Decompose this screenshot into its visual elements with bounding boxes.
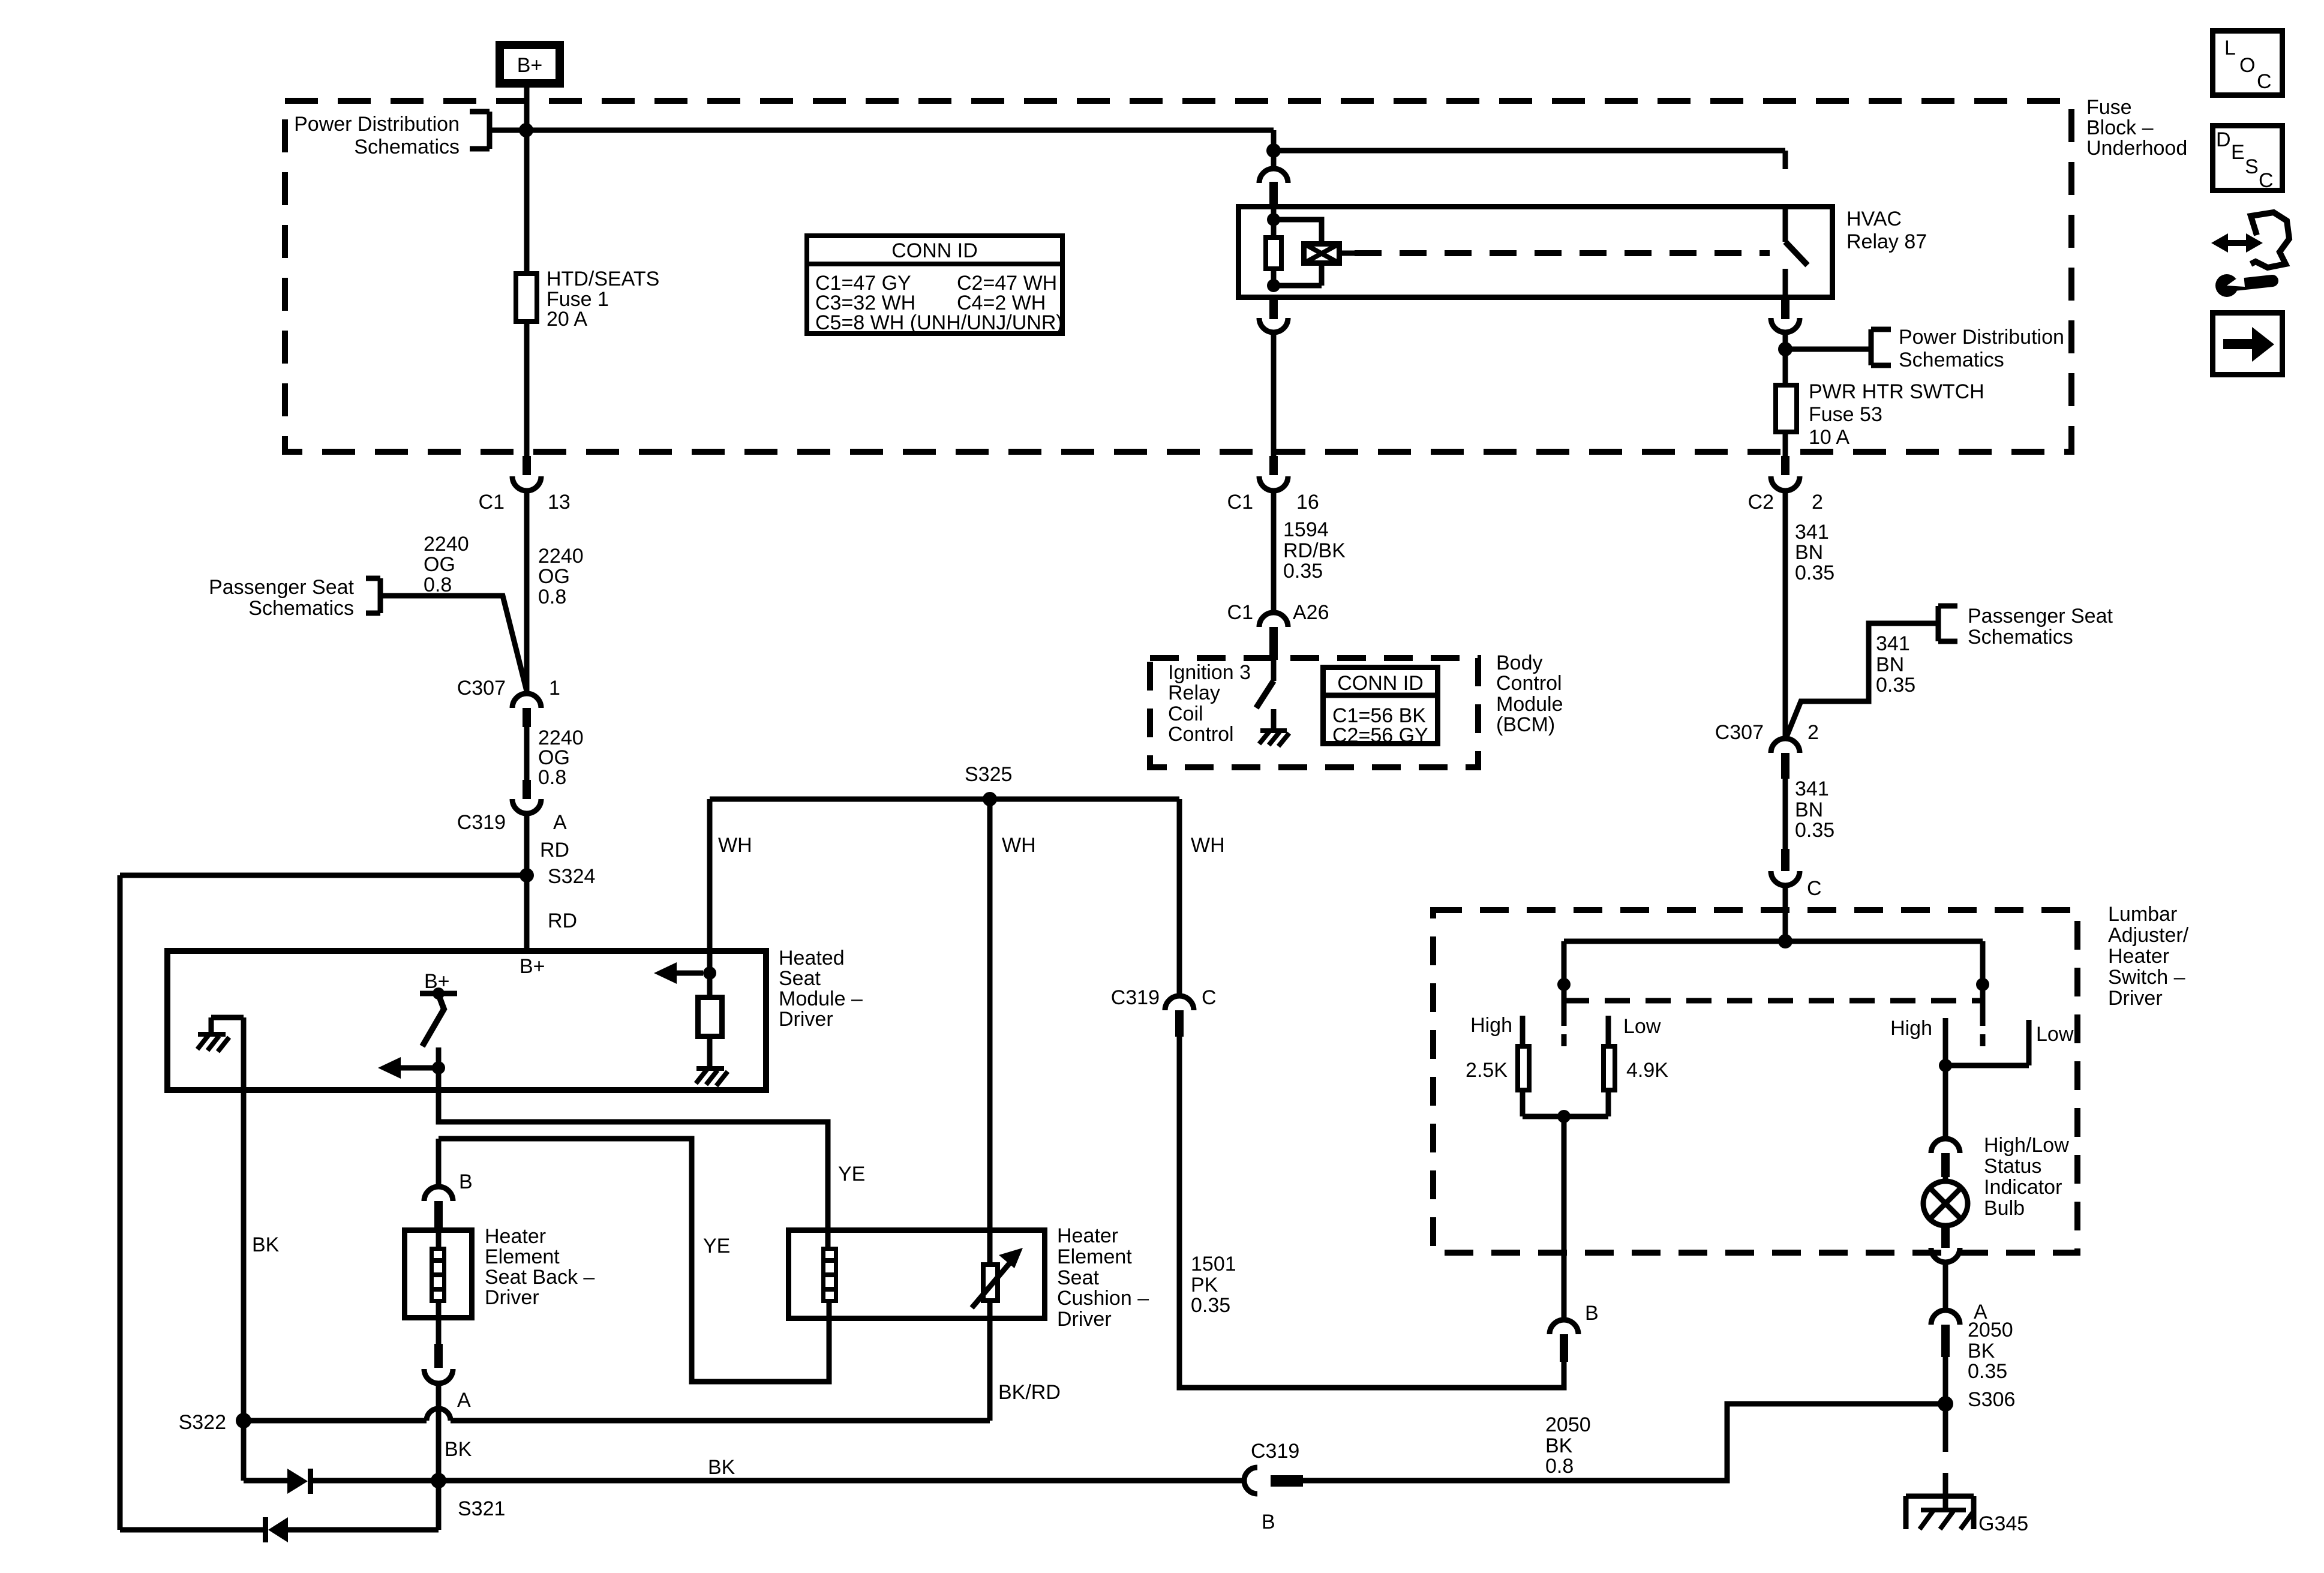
wire series link cushion to seat back bbox=[439, 1139, 829, 1382]
svg-text:BN: BN bbox=[1795, 798, 1823, 821]
svg-text:S325: S325 bbox=[965, 763, 1012, 786]
connector C319-A bbox=[523, 780, 531, 799]
svg-text:16: 16 bbox=[1296, 491, 1319, 514]
wire bulb to connector A bbox=[1943, 1262, 1948, 1310]
svg-text:Module –: Module – bbox=[779, 987, 863, 1010]
resistor 4.9K bbox=[1604, 1046, 1615, 1090]
svg-text:B: B bbox=[1585, 1302, 1599, 1325]
svg-text:Schematics: Schematics bbox=[248, 597, 354, 620]
wire into lumbar switch bbox=[1783, 885, 1788, 941]
svg-text:Relay 87: Relay 87 bbox=[1846, 230, 1927, 253]
svg-text:BK: BK bbox=[445, 1438, 472, 1461]
wire WH right branch bbox=[1177, 799, 1182, 996]
svg-text:Ignition 3: Ignition 3 bbox=[1168, 661, 1251, 684]
svg-text:Control: Control bbox=[1168, 723, 1234, 746]
node relay feed junction bbox=[1266, 143, 1281, 158]
svg-text:Indicator: Indicator bbox=[1984, 1176, 2062, 1199]
wire S322 to BK/RD with hop bbox=[244, 1409, 990, 1421]
svg-text:Seat Back –: Seat Back – bbox=[485, 1266, 594, 1289]
svg-text:Bulb: Bulb bbox=[1984, 1197, 2025, 1220]
svg-text:Switch –: Switch – bbox=[2108, 966, 2185, 989]
svg-text:C319: C319 bbox=[1251, 1440, 1299, 1463]
svg-text:Passenger Seat: Passenger Seat bbox=[1968, 605, 2113, 628]
bulb connector top bbox=[1931, 1139, 1960, 1153]
svg-text:YE: YE bbox=[838, 1163, 865, 1185]
svg-text:Adjuster/: Adjuster/ bbox=[2108, 924, 2189, 947]
svg-text:WH: WH bbox=[1002, 834, 1036, 857]
svg-text:0.35: 0.35 bbox=[1795, 819, 1834, 842]
internal resistor branch wire bbox=[707, 973, 713, 995]
wire 2050 BK 0.8 bbox=[1303, 1404, 1945, 1481]
pin relay switch bottom bbox=[1781, 300, 1789, 319]
wire BK module to S322 bbox=[241, 1017, 247, 1421]
svg-text:2050: 2050 bbox=[1545, 1413, 1591, 1436]
svg-text:2: 2 bbox=[1812, 491, 1823, 514]
connector socket C2-2 bbox=[1771, 476, 1800, 491]
svg-text:Control: Control bbox=[1496, 672, 1562, 695]
wire fuse53 to C2-2 bbox=[1783, 432, 1788, 457]
wire S322 down bbox=[241, 1421, 247, 1481]
svg-text:C1: C1 bbox=[1227, 491, 1253, 514]
svg-text:0.8: 0.8 bbox=[1545, 1455, 1574, 1478]
svg-text:C: C bbox=[1807, 877, 1822, 900]
wire B+ to fuse F1 bbox=[524, 88, 530, 271]
svg-text:PK: PK bbox=[1191, 1274, 1218, 1296]
relay HVAC 87 box bbox=[1239, 207, 1833, 298]
heater element seat cushion box bbox=[789, 1230, 1045, 1319]
relay coil K1 bbox=[1271, 205, 1277, 286]
svg-text:Heater: Heater bbox=[1057, 1224, 1118, 1247]
svg-text:RD: RD bbox=[540, 839, 569, 861]
svg-text:C307: C307 bbox=[1715, 721, 1764, 744]
svg-text:High: High bbox=[1890, 1017, 1932, 1040]
svg-text:CONN ID: CONN ID bbox=[891, 239, 978, 262]
svg-text:Low: Low bbox=[1623, 1015, 1661, 1038]
BCM relay coil control switch bbox=[1271, 660, 1277, 681]
pin relay coil top bbox=[1269, 182, 1278, 205]
svg-text:B+: B+ bbox=[517, 54, 543, 77]
wire switch output to cushion element bbox=[439, 1093, 828, 1247]
svg-text:RD: RD bbox=[548, 909, 577, 932]
svg-text:10 A: 10 A bbox=[1809, 426, 1849, 449]
wire bus B+ horizontal bbox=[490, 128, 1274, 133]
icon arrow box bbox=[2213, 313, 2283, 375]
internal arrow left lower bbox=[400, 1065, 434, 1071]
svg-text:WH: WH bbox=[718, 834, 752, 857]
svg-text:Driver: Driver bbox=[779, 1008, 833, 1031]
svg-text:Schematics: Schematics bbox=[1968, 626, 2073, 649]
svg-text:2: 2 bbox=[1807, 721, 1819, 744]
svg-text:Coil: Coil bbox=[1168, 703, 1203, 725]
svg-text:Driver: Driver bbox=[1057, 1308, 1112, 1331]
svg-text:OG: OG bbox=[424, 553, 455, 576]
svg-text:Heated: Heated bbox=[779, 947, 845, 969]
heated seat module driver box bbox=[167, 951, 766, 1090]
fuse F1 HTD/SEATS bbox=[516, 274, 537, 322]
wire 1501 PK bbox=[1179, 1037, 1564, 1388]
resistor 2.5K bbox=[1518, 1046, 1529, 1090]
svg-text:B+: B+ bbox=[520, 955, 545, 978]
svg-text:341: 341 bbox=[1795, 521, 1829, 544]
svg-text:High: High bbox=[1470, 1014, 1512, 1037]
ground internal right bbox=[696, 1068, 728, 1086]
wire fuse F1 to connector C1-13 bbox=[524, 324, 530, 457]
wire to indicator bulb bbox=[1943, 1065, 1948, 1139]
wire thermistor down BK/RD bbox=[987, 1301, 993, 1421]
diode D1 bbox=[244, 1478, 287, 1484]
svg-text:0.35: 0.35 bbox=[1191, 1294, 1230, 1317]
svg-text:Seat: Seat bbox=[1057, 1266, 1099, 1289]
svg-text:4.9K: 4.9K bbox=[1626, 1059, 1668, 1082]
svg-text:WH: WH bbox=[1191, 834, 1225, 857]
svg-text:RD/BK: RD/BK bbox=[1283, 539, 1346, 562]
svg-text:CONN ID: CONN ID bbox=[1337, 672, 1424, 695]
svg-text:2050: 2050 bbox=[1968, 1319, 2013, 1341]
svg-text:BK: BK bbox=[708, 1456, 735, 1479]
splice S321 bbox=[431, 1473, 446, 1488]
left wiper bbox=[1562, 984, 1567, 1046]
resistor output bus bbox=[1523, 1090, 1608, 1116]
svg-text:Lumbar: Lumbar bbox=[2108, 903, 2177, 926]
connector A seat back bbox=[434, 1344, 443, 1368]
connector pin C1-16 bbox=[1269, 456, 1278, 475]
dashed gang line bbox=[1564, 998, 1983, 1004]
svg-text:D: D bbox=[2216, 128, 2231, 151]
svg-text:C: C bbox=[2257, 70, 2272, 93]
splice S325 bbox=[983, 792, 997, 806]
solenoid X box bbox=[1304, 244, 1340, 263]
wire branch to passenger seat right bbox=[1786, 623, 1938, 737]
svg-text:1: 1 bbox=[549, 677, 560, 700]
svg-text:1594: 1594 bbox=[1283, 518, 1329, 541]
svg-text:C319: C319 bbox=[457, 811, 506, 834]
wire WH left branch bbox=[707, 799, 713, 973]
svg-text:Heater: Heater bbox=[2108, 945, 2169, 968]
right wiper bbox=[1980, 984, 1986, 1046]
fuse block underhood dashed box bbox=[285, 101, 2071, 452]
wire 2050 BK 0.35 bbox=[1943, 1357, 1948, 1404]
svg-text:Heater: Heater bbox=[485, 1225, 546, 1248]
svg-text:0.8: 0.8 bbox=[538, 586, 566, 608]
wire branch to power distribution bbox=[1785, 347, 1871, 352]
svg-text:Power Distribution: Power Distribution bbox=[1899, 326, 2064, 349]
internal resistor bbox=[698, 998, 722, 1037]
svg-text:BK: BK bbox=[1968, 1340, 1995, 1362]
wire WH middle branch bbox=[987, 799, 993, 1265]
heater element seat cushion bbox=[824, 1249, 836, 1301]
wire C2-2 down bbox=[1783, 491, 1788, 737]
splice S324 bbox=[520, 868, 534, 882]
bracket power distribution schematics top-left bbox=[470, 112, 490, 149]
internal arrow left upper bbox=[674, 971, 703, 976]
svg-text:0.35: 0.35 bbox=[1968, 1360, 2007, 1383]
wire C1-13 down bbox=[524, 491, 530, 694]
svg-text:Power Distribution: Power Distribution bbox=[294, 113, 460, 136]
BCM dashed box bbox=[1150, 658, 1478, 767]
icon DESC box bbox=[2213, 126, 2283, 191]
svg-text:C1: C1 bbox=[1227, 601, 1253, 624]
wire C307 to C319 bbox=[524, 727, 530, 780]
indicator bulb bbox=[1943, 1177, 1948, 1181]
svg-text:A26: A26 bbox=[1293, 601, 1329, 624]
heater element seat back bbox=[432, 1249, 445, 1301]
bulb connector bottom bbox=[1941, 1226, 1950, 1248]
connector B seat back bbox=[424, 1187, 453, 1201]
socket relay switch bottom bbox=[1771, 318, 1800, 332]
svg-text:C2=56 GY: C2=56 GY bbox=[1332, 724, 1428, 747]
svg-text:Element: Element bbox=[1057, 1245, 1132, 1268]
CONN ID table fuse block bbox=[807, 236, 1062, 334]
ground inside BCM bbox=[1271, 709, 1277, 731]
bracket power distribution schematics right bbox=[1871, 329, 1891, 365]
svg-text:BK: BK bbox=[252, 1233, 280, 1256]
wire to relay contact bbox=[1274, 151, 1785, 169]
svg-text:B: B bbox=[1262, 1511, 1275, 1533]
svg-text:G345: G345 bbox=[1978, 1512, 2028, 1535]
svg-text:OG: OG bbox=[538, 565, 570, 588]
splice S306 bbox=[1938, 1396, 1953, 1412]
socket relay coil bottom bbox=[1259, 318, 1288, 332]
wire to connector B lumbar bbox=[1562, 1116, 1567, 1320]
svg-text:L: L bbox=[2224, 37, 2236, 59]
splice S322 bbox=[236, 1413, 251, 1428]
svg-text:HTD/SEATS: HTD/SEATS bbox=[547, 268, 659, 290]
wire C307-2 down bbox=[1783, 779, 1788, 849]
svg-text:Seat: Seat bbox=[779, 967, 821, 990]
svg-text:C5=8 WH (UNH/UNJ/UNR): C5=8 WH (UNH/UNJ/UNR) bbox=[815, 311, 1063, 334]
wire bottom return bbox=[120, 1527, 439, 1533]
connector pin C2-2 bbox=[1781, 456, 1789, 475]
wire to fuse 53 bbox=[1783, 332, 1788, 385]
svg-text:PWR HTR SWTCH: PWR HTR SWTCH bbox=[1809, 380, 1984, 403]
bracket passenger seat schematics right bbox=[1938, 606, 1957, 641]
ground G345 bbox=[1906, 1496, 1974, 1529]
wire S321 down to return bbox=[436, 1481, 442, 1530]
wire S306 to ground bbox=[1943, 1404, 1948, 1496]
node at B+ junction bbox=[519, 123, 533, 137]
svg-text:A: A bbox=[553, 811, 567, 834]
svg-text:Underhood: Underhood bbox=[2086, 137, 2187, 160]
svg-text:E: E bbox=[2231, 141, 2245, 164]
svg-text:Module: Module bbox=[1496, 693, 1563, 716]
svg-text:C319: C319 bbox=[1111, 986, 1160, 1009]
svg-text:Fuse 53: Fuse 53 bbox=[1809, 403, 1882, 426]
wire C1-16 down bbox=[1271, 491, 1277, 613]
svg-text:Passenger Seat: Passenger Seat bbox=[209, 576, 354, 599]
svg-text:BN: BN bbox=[1795, 541, 1823, 564]
wire stub to dashed control line bbox=[1342, 251, 1355, 256]
connector A lumbar bbox=[1931, 1310, 1960, 1325]
svg-text:C1: C1 bbox=[479, 491, 505, 514]
wire RD to module bbox=[524, 813, 530, 948]
heater element seat back box bbox=[405, 1230, 472, 1318]
icon LOC box bbox=[2213, 31, 2283, 95]
svg-text:Fuse: Fuse bbox=[2086, 96, 2132, 119]
svg-text:(BCM): (BCM) bbox=[1496, 713, 1555, 736]
svg-text:Cushion –: Cushion – bbox=[1057, 1287, 1149, 1310]
switch feed rail bbox=[1564, 941, 1983, 984]
svg-text:BN: BN bbox=[1876, 653, 1904, 676]
svg-text:0.8: 0.8 bbox=[424, 574, 452, 596]
CONN ID table BCM bbox=[1323, 668, 1438, 744]
svg-text:Block –: Block – bbox=[2086, 116, 2154, 139]
wire coil branch to solenoid box bbox=[1274, 220, 1322, 286]
svg-text:A: A bbox=[457, 1389, 471, 1412]
svg-text:HVAC: HVAC bbox=[1846, 208, 1902, 230]
wire S324 to left riser bbox=[120, 873, 527, 878]
svg-text:BK: BK bbox=[1545, 1434, 1573, 1457]
svg-text:341: 341 bbox=[1876, 632, 1910, 655]
svg-text:2240: 2240 bbox=[538, 545, 584, 568]
svg-text:Element: Element bbox=[485, 1245, 560, 1268]
ground internal left bbox=[211, 1017, 244, 1033]
connector socket at relay coil top bbox=[1259, 169, 1288, 183]
svg-text:S: S bbox=[2245, 155, 2259, 178]
svg-text:C307: C307 bbox=[457, 677, 506, 700]
svg-text:S321: S321 bbox=[458, 1497, 505, 1520]
svg-text:Status: Status bbox=[1984, 1155, 2041, 1178]
thermistor variable resistor bbox=[983, 1265, 998, 1301]
svg-text:Driver: Driver bbox=[2108, 987, 2163, 1010]
wire to C1-16 bbox=[1271, 332, 1277, 457]
relay switch contact 87 bbox=[1783, 205, 1788, 242]
svg-text:13: 13 bbox=[548, 491, 571, 514]
bracket passenger seat schematics left bbox=[366, 578, 380, 613]
svg-text:B: B bbox=[459, 1170, 473, 1193]
svg-text:C: C bbox=[1202, 986, 1217, 1009]
svg-text:S306: S306 bbox=[1968, 1388, 2015, 1411]
svg-text:Relay: Relay bbox=[1168, 682, 1220, 704]
connector pin C1-13 bbox=[523, 456, 531, 475]
svg-text:0.8: 0.8 bbox=[538, 766, 566, 789]
svg-text:O: O bbox=[2239, 54, 2255, 77]
connector socket C1-16 bbox=[1259, 476, 1288, 491]
connector C bbox=[1781, 849, 1789, 871]
svg-text:S322: S322 bbox=[179, 1411, 226, 1434]
svg-text:1501: 1501 bbox=[1191, 1253, 1236, 1275]
svg-text:2.5K: 2.5K bbox=[1466, 1059, 1508, 1082]
svg-text:0.35: 0.35 bbox=[1283, 560, 1323, 583]
diode D2 bbox=[263, 1517, 268, 1542]
pin relay coil bottom bbox=[1269, 300, 1278, 319]
svg-text:Low: Low bbox=[2036, 1023, 2074, 1046]
svg-text:BK/RD: BK/RD bbox=[998, 1381, 1061, 1404]
svg-text:YE: YE bbox=[703, 1235, 730, 1257]
power symbol B+ bbox=[500, 45, 560, 83]
dashed relay control line bbox=[1355, 250, 1770, 256]
svg-text:0.35: 0.35 bbox=[1795, 562, 1834, 584]
svg-text:C2: C2 bbox=[1748, 491, 1774, 514]
icon diagnostic wrench bbox=[2221, 240, 2253, 246]
lumbar adjuster heater switch dashed box bbox=[1433, 910, 2077, 1253]
svg-text:High/Low: High/Low bbox=[1984, 1134, 2069, 1157]
wire BK ground bus bbox=[313, 1478, 1242, 1484]
svg-text:C: C bbox=[2259, 169, 2274, 192]
svg-text:2240: 2240 bbox=[424, 533, 469, 556]
svg-text:Schematics: Schematics bbox=[1899, 349, 2004, 371]
svg-text:Driver: Driver bbox=[485, 1286, 539, 1309]
wire down to relay coil bbox=[1271, 130, 1277, 169]
wire A to S321 bbox=[436, 1383, 442, 1481]
svg-text:20 A: 20 A bbox=[547, 308, 587, 331]
wire left riser down bbox=[118, 875, 123, 1530]
wire WH bus S325 bbox=[710, 797, 1179, 802]
connector B lumbar bbox=[1550, 1320, 1578, 1334]
svg-text:0.35: 0.35 bbox=[1876, 674, 1915, 697]
wire to connector B bbox=[436, 1139, 442, 1187]
svg-text:341: 341 bbox=[1795, 778, 1829, 800]
svg-text:Schematics: Schematics bbox=[354, 136, 460, 158]
node power dist branch bbox=[1778, 342, 1792, 356]
svg-text:S324: S324 bbox=[548, 865, 595, 888]
connector socket C1-13 bbox=[512, 476, 541, 491]
svg-text:Body: Body bbox=[1496, 652, 1543, 674]
wire branch to passenger seat bbox=[380, 596, 527, 691]
fuse F53 PWR HTR SWTCH bbox=[1776, 385, 1797, 432]
